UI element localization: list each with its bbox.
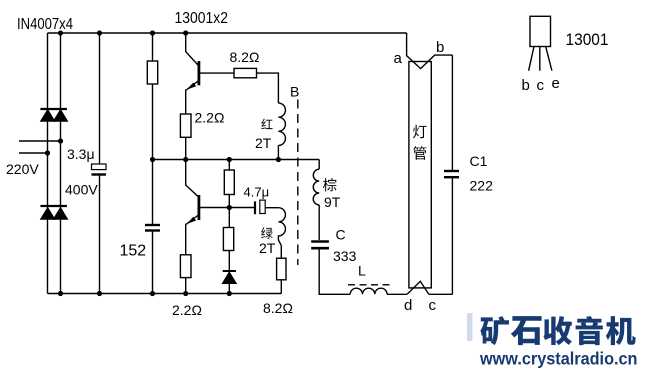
wire red winding to midpoint	[277, 145, 279, 159]
wire startup resistor branch (x=152.5)	[152, 33, 154, 294]
svg-text:8.2Ω: 8.2Ω	[263, 300, 293, 316]
wire 4.7μ to green winding	[265, 207, 278, 209]
svg-text:333: 333	[333, 248, 357, 264]
diode D3 (bridge lower-left)	[41, 208, 54, 219]
watermark 矿石收音机	[480, 316, 509, 345]
pin b lead	[529, 47, 534, 71]
svg-text:c: c	[429, 297, 437, 314]
wire R2 to midpoint	[185, 137, 187, 159]
svg-text:2.2Ω: 2.2Ω	[195, 110, 225, 126]
transformer core B (dashed)	[297, 100, 299, 266]
junction Q2 base / divider	[227, 205, 232, 210]
wire lamp c to C1 bottom	[429, 293, 453, 295]
wire midpoint node	[153, 159, 320, 161]
resistor R5 (divider upper)	[224, 170, 234, 195]
wire Q1 emitter to R2	[185, 90, 187, 115]
junction AC line / right branch	[58, 138, 63, 143]
svg-text:400V: 400V	[65, 182, 98, 198]
label 棕	[323, 178, 336, 191]
capacitor C 333	[311, 240, 329, 243]
inductor L	[350, 288, 387, 294]
junction AC neutral / left branch	[45, 150, 50, 155]
junction startup branch / top rail	[150, 30, 155, 35]
resistor R7 8.2Ω (lower)	[277, 258, 286, 280]
svg-text:www.crystalradio.cn: www.crystalradio.cn	[479, 349, 637, 369]
Q2 emitter with arrow	[186, 215, 198, 224]
Q1 emitter with arrow	[186, 81, 198, 90]
svg-text:a: a	[394, 50, 403, 67]
svg-text:b: b	[436, 39, 444, 56]
label 灯	[413, 125, 427, 139]
junction startup branch / midpoint	[150, 157, 155, 162]
svg-text:d: d	[404, 297, 412, 314]
wire right bridge branch	[60, 33, 62, 294]
resistor R2 2.2Ω (upper emitter)	[180, 114, 191, 137]
junction filter cap / bottom rail	[97, 291, 102, 296]
junction red winding / midpoint	[276, 157, 281, 162]
svg-text:b: b	[522, 77, 530, 94]
wire R7 to bottom rail	[280, 280, 282, 294]
junction Q1 collector / top rail	[183, 30, 188, 35]
diode D4 (bridge lower-right)	[54, 208, 67, 219]
svg-text:B: B	[290, 84, 299, 100]
svg-text:4.7μ: 4.7μ	[244, 185, 270, 200]
wire divider branch	[228, 160, 230, 294]
pin e lead	[546, 47, 552, 71]
AC input wire (neutral)	[19, 152, 48, 154]
svg-text:L: L	[358, 263, 366, 279]
svg-text:9T: 9T	[324, 194, 341, 210]
lamp tube outline	[409, 62, 431, 288]
wire 8.2Ω to red winding	[257, 73, 279, 103]
diode D1 (bridge upper-left)	[41, 110, 54, 121]
wire L to lamp	[387, 293, 407, 295]
wire filter cap branch	[99, 33, 101, 294]
wire C1 bottom	[451, 178, 453, 294]
pin c lead	[539, 47, 541, 71]
transistor Q2 (13001) base bar	[197, 195, 200, 220]
svg-text:C: C	[336, 227, 346, 243]
svg-text:c: c	[537, 77, 545, 94]
resistor R3 8.2Ω (upper base)	[234, 68, 257, 77]
junction R4 / bottom rail	[183, 291, 188, 296]
capacitor 4.7μ	[254, 201, 256, 214]
wire brown winding to C333	[318, 205, 320, 240]
svg-text:222: 222	[470, 178, 494, 194]
junction startup branch / bottom rail	[150, 291, 155, 296]
svg-text:152: 152	[120, 243, 147, 260]
junction divider / midpoint	[227, 157, 232, 162]
wire left bridge branch	[47, 33, 49, 294]
transistor package 13001 (TO-92 outline)	[530, 16, 551, 46]
wire C333 to bottom	[319, 248, 350, 294]
wire bottom negative rail	[48, 293, 282, 295]
svg-text:8.2Ω: 8.2Ω	[230, 49, 260, 65]
watermark icon bar	[467, 313, 473, 341]
cathode bar of D1/D2	[40, 108, 67, 110]
junction filter cap / top rail	[97, 30, 102, 35]
svg-text:13001: 13001	[566, 31, 609, 49]
junction right bridge / top rail	[58, 30, 63, 35]
wire Q2 emitter to R4	[185, 224, 187, 255]
winding 红 2T	[278, 103, 285, 145]
wire lamp terminal a from top rail	[407, 33, 453, 69]
diode D5	[223, 272, 236, 283]
core of L (dashed)	[348, 284, 390, 286]
wire Q1 collector	[186, 33, 199, 66]
cathode bar of D3/D4	[40, 205, 67, 207]
wire lamp terminal b to C1	[451, 55, 453, 170]
svg-text:13001x2: 13001x2	[175, 10, 229, 27]
svg-text:2T: 2T	[255, 135, 272, 151]
svg-text:220V: 220V	[6, 161, 39, 177]
wire top positive rail	[48, 32, 407, 34]
junction D5 / bottom rail	[227, 291, 232, 296]
junction Q1 emitter chain / midpoint	[183, 157, 188, 162]
wire R4 to bottom rail	[185, 278, 187, 294]
svg-text:IN4007x4: IN4007x4	[17, 16, 73, 33]
resistor R1 (startup)	[147, 61, 157, 84]
resistor R4 2.2Ω (lower emitter)	[180, 255, 191, 278]
lamp bottom filament	[407, 281, 429, 294]
capacitor 3.3u 400V (electrolytic)	[92, 164, 107, 170]
label 管	[413, 146, 426, 160]
capacitor C1 222	[444, 170, 459, 172]
wire Q1 base	[199, 72, 234, 74]
winding 绿 2T	[278, 208, 285, 246]
wire Q2 base	[199, 207, 254, 209]
transistor Q1 (13001) base bar	[197, 61, 200, 85]
junction right bridge / bottom rail	[58, 291, 63, 296]
svg-text:2T: 2T	[259, 240, 276, 256]
AC input wire (line)	[19, 140, 61, 142]
cathode bar of D5	[223, 270, 236, 272]
svg-text:C1: C1	[470, 153, 488, 169]
wire Q2 collector	[186, 160, 199, 197]
resistor R6 (divider lower)	[223, 228, 233, 251]
svg-text:e: e	[552, 75, 560, 92]
wire midpoint to brown winding	[318, 160, 320, 170]
winding 棕 9T	[313, 169, 319, 205]
svg-text:3.3μ: 3.3μ	[67, 146, 95, 162]
wire green winding to R7	[280, 246, 282, 259]
label 红	[261, 119, 272, 130]
diode D2 (bridge upper-right)	[54, 110, 67, 121]
svg-text:2.2Ω: 2.2Ω	[172, 302, 202, 318]
label 绿	[261, 227, 273, 238]
capacitor 152	[145, 224, 160, 226]
